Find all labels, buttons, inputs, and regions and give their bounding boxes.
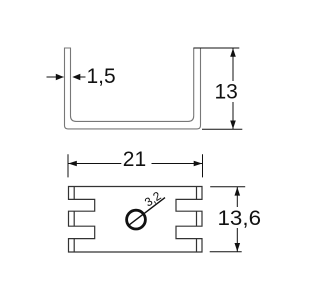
svg-text:13,6: 13,6 bbox=[218, 207, 262, 230]
dim 21 right extension line bbox=[202, 154, 204, 177]
dim 13,6 text halo bbox=[216, 207, 263, 228]
dim 13 shaft bbox=[232, 48, 234, 129]
dim 13 top arrowhead bbox=[230, 48, 236, 57]
inner wall line left, middle tooth bbox=[73, 211, 75, 226]
dim 13,6 bottom arrowhead bbox=[235, 243, 241, 252]
dim 1,5 right arrowhead bbox=[72, 74, 80, 81]
dim 13,6 top extension line bbox=[210, 186, 245, 188]
dim 13 top extension line bbox=[194, 47, 240, 49]
dim 1,5 left arrowhead bbox=[56, 74, 64, 81]
inner wall line right, bottom tooth bbox=[196, 239, 198, 252]
dim 13,6 bottom extension line bbox=[210, 251, 242, 253]
dim 13,6 shaft bbox=[236, 187, 238, 252]
inner wall line right, top tooth bbox=[196, 187, 198, 200]
svg-text:13: 13 bbox=[215, 81, 238, 104]
hole circle bbox=[127, 210, 146, 229]
dim 21 right arrowhead bbox=[194, 161, 203, 167]
dim 21 left arrowhead bbox=[68, 161, 77, 167]
inner wall line left, top tooth bbox=[73, 187, 75, 200]
dim 1,5 left tail line bbox=[47, 76, 64, 78]
heatsink top view outline with fins bbox=[69, 187, 203, 253]
dim 13,6 top arrowhead bbox=[235, 187, 241, 196]
dim 21 shaft left segment bbox=[68, 163, 121, 165]
dim 13 bottom extension line bbox=[202, 128, 242, 130]
inner wall line right, middle tooth bbox=[196, 211, 198, 226]
dim 21 shaft right segment bbox=[152, 163, 203, 165]
dim 13 bottom arrowhead bbox=[230, 121, 236, 130]
dim 1,5 right tail line bbox=[80, 76, 86, 78]
inner wall line left, bottom tooth bbox=[73, 239, 75, 252]
U-channel profile outline bbox=[65, 48, 201, 129]
svg-text:21: 21 bbox=[123, 148, 146, 171]
hole leader line bbox=[128, 198, 165, 226]
svg-text:1,5: 1,5 bbox=[87, 65, 116, 88]
dim 21 left extension line bbox=[67, 154, 69, 177]
dim 13 text halo bbox=[214, 81, 238, 102]
